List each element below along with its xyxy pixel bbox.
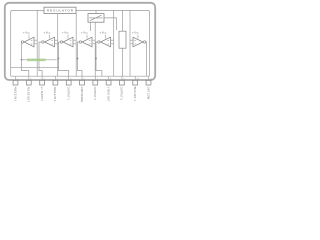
pin 7 lead xyxy=(94,76,96,80)
IC package outline xyxy=(5,3,155,80)
svg-text:OUT COM: OUT COM xyxy=(146,87,150,100)
wire: channel 5 input rail xyxy=(113,10,115,76)
thermal sensor U7 xyxy=(88,14,104,23)
op-amp U5 xyxy=(98,37,111,47)
svg-text:OUTPUT 2: OUTPUT 2 xyxy=(93,87,97,101)
wire: channel 4 input rail xyxy=(94,31,96,76)
wire: R1 top xyxy=(122,10,124,31)
pin 6 lead xyxy=(81,76,83,80)
pin 2 lead xyxy=(28,76,30,80)
resistor R1 xyxy=(119,31,126,48)
Vcc label channel 1 xyxy=(23,31,30,39)
pin 3 lead xyxy=(41,76,43,80)
wire: U7 top to rail xyxy=(95,10,97,13)
svg-text:OUTPUT 3: OUTPUT 3 xyxy=(120,87,124,101)
pin 6 pad xyxy=(80,80,85,85)
pin 4 lead xyxy=(54,76,56,80)
junction channel 5 xyxy=(95,58,97,60)
pin 5 lead xyxy=(68,76,70,80)
wire: R1 bottom xyxy=(122,48,124,76)
wire: U2 output to pin xyxy=(39,42,42,76)
op-amp U3 xyxy=(60,37,73,47)
pin 7 pad xyxy=(93,80,98,85)
svg-text:BIAS SET 1: BIAS SET 1 xyxy=(133,87,137,102)
wire: regulator output left rail xyxy=(11,10,44,76)
pin 11 lead xyxy=(148,76,150,80)
wire: U6 input rail xyxy=(129,10,131,76)
wire: U7 bottom feeds xyxy=(91,22,96,31)
op-amp U4 xyxy=(79,37,92,47)
ground bus xyxy=(11,75,150,77)
wire: U1 inputs xyxy=(34,40,37,44)
svg-text:OUTPUT 1: OUTPUT 1 xyxy=(67,87,71,101)
highlighted net (green) xyxy=(27,59,46,62)
wire: U1 output to pin xyxy=(21,42,29,76)
Vcc label channel 4 xyxy=(81,31,88,39)
junction channel 2 xyxy=(38,59,40,61)
wire: channel 3 input rail xyxy=(75,14,77,77)
pin 3 pad xyxy=(40,80,45,85)
wire: regulator output right rail xyxy=(76,10,149,76)
pin 1 lead xyxy=(15,76,17,80)
Vcc label channel 2 xyxy=(44,31,51,39)
wire: U4 inputs xyxy=(92,40,95,44)
pin 1 pad xyxy=(13,80,18,85)
svg-text:ANGLE IN 1: ANGLE IN 1 xyxy=(13,87,17,102)
wire: U2 inputs xyxy=(55,40,58,44)
pin 9 lead xyxy=(121,76,123,80)
pin 9 pad xyxy=(120,80,125,85)
wire: U6 inputs xyxy=(130,40,133,44)
wire: U6 output xyxy=(145,42,148,76)
regulator block xyxy=(44,7,76,13)
pin 10 lead xyxy=(134,76,136,80)
wire: U5 output to pin xyxy=(96,42,102,76)
svg-text:V REG OUT: V REG OUT xyxy=(106,87,110,102)
pin 4 pad xyxy=(53,80,58,85)
junction channel 4 xyxy=(77,58,79,60)
op-amp U2 xyxy=(42,37,55,47)
op-amp U6 xyxy=(133,37,146,47)
junction channel 1 xyxy=(21,59,23,61)
pin 8 lead xyxy=(108,76,110,80)
pin 5 pad xyxy=(66,80,71,85)
svg-text:V+ SUPPLY: V+ SUPPLY xyxy=(40,87,44,102)
Vcc label channel 6 xyxy=(132,31,139,39)
wire: lower feedback bus xyxy=(11,67,59,69)
wire: U3 output to pin xyxy=(59,42,69,76)
pin 2 pad xyxy=(26,80,31,85)
wire: channel 2 input rail xyxy=(57,14,59,77)
svg-text:REGULATOR: REGULATOR xyxy=(47,9,74,13)
Vcc label channel 5 xyxy=(100,31,107,39)
wire: net between U1 and U2 outputs xyxy=(22,59,57,61)
wire: U5 inputs xyxy=(111,40,114,44)
svg-text:ANGLE IN 2: ANGLE IN 2 xyxy=(53,87,57,102)
Vcc label channel 3 xyxy=(62,31,69,39)
pin 11 pad xyxy=(146,80,151,85)
wire: U7 output right xyxy=(104,18,117,30)
pin 8 pad xyxy=(106,80,111,85)
pin 10 pad xyxy=(133,80,138,85)
wire: U3 inputs xyxy=(73,40,76,44)
op-amp U1 xyxy=(21,37,34,47)
wire: channel 1 input rail xyxy=(36,10,38,76)
junction channel 3 xyxy=(58,58,60,60)
svg-text:GND SENSE: GND SENSE xyxy=(80,87,84,102)
svg-text:PULSE OUT: PULSE OUT xyxy=(27,87,31,102)
wire: U4 output to pin xyxy=(78,42,83,76)
